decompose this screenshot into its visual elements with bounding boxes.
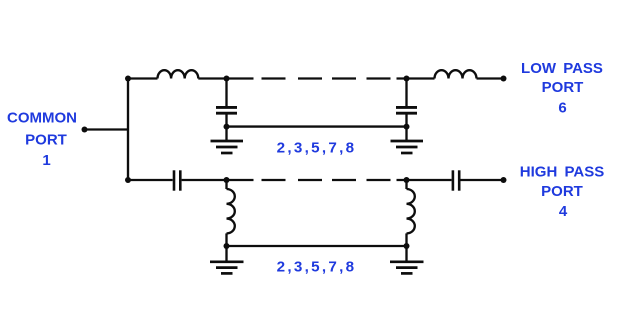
svg-text:PORT: PORT [25, 131, 67, 148]
wire top bus 2,3,5,7,8 [227, 125, 407, 127]
node A top-left shunt junction [224, 76, 230, 82]
svg-text:6: 6 [558, 99, 566, 116]
wire node D down to L4 [405, 180, 407, 189]
capacitor C2 shunt [396, 107, 417, 113]
wire top branch left [128, 77, 158, 79]
wire L4 to ground stem [405, 233, 407, 260]
wire C1 to ground stem [225, 115, 227, 141]
wire node B to L2 [407, 77, 435, 79]
node top split junction [125, 76, 131, 82]
inductor L1 series low-pass [158, 70, 199, 78]
wire vertical splitter bar [127, 79, 129, 181]
svg-text:HIGH PASS: HIGH PASS [520, 163, 604, 180]
wire dashed bottom omitted sections [227, 179, 407, 181]
node bottom bus left junction [224, 243, 230, 249]
wire bottom bus 2,3,5,7,8 [227, 245, 407, 247]
wire common port to split [85, 128, 129, 130]
capacitor C4 series high-pass [453, 170, 459, 190]
capacitor C3 series high-pass [174, 170, 180, 190]
node bottom bus right junction [404, 243, 410, 249]
node top bus left junction [224, 124, 230, 130]
svg-text:PORT: PORT [541, 183, 583, 200]
svg-text:2,3,5,7,8: 2,3,5,7,8 [277, 258, 357, 275]
node bottom split junction [125, 177, 131, 183]
inductor L4 shunt [407, 189, 415, 233]
wire L1 to node A [198, 77, 226, 79]
wire dashed top omitted sections [227, 77, 407, 79]
node C bottom-left shunt junction [224, 177, 230, 183]
wire node B down to C2 [405, 79, 407, 107]
capacitor C1 shunt [216, 107, 237, 113]
svg-text:LOW PASS: LOW PASS [521, 60, 603, 77]
node B top-right shunt junction [404, 76, 410, 82]
node COMMON PORT 1 terminal [82, 127, 88, 133]
node LOW PASS PORT 6 terminal [501, 76, 507, 82]
wire C3 to node C [182, 179, 227, 181]
node D bottom-right shunt junction [404, 177, 410, 183]
svg-text:COMMON: COMMON [7, 110, 77, 127]
wire L2 to low pass port [477, 77, 504, 79]
wire bottom branch left [128, 179, 173, 181]
svg-text:4: 4 [559, 203, 568, 220]
ground bottom-right [390, 262, 424, 274]
wire node D to C4 [407, 179, 452, 181]
inductor L3 shunt [227, 189, 235, 233]
wire node A down to C1 [225, 79, 227, 107]
wire L3 to ground stem [225, 233, 227, 260]
node HIGH PASS PORT 4 terminal [501, 177, 507, 183]
wire node C down to L3 [225, 180, 227, 189]
wire C4 to high pass port [461, 179, 504, 181]
ground top-right [391, 141, 424, 153]
ground bottom-left [210, 262, 244, 274]
node top bus right junction [404, 124, 410, 130]
ground top-left [211, 141, 244, 153]
wire C2 to ground stem [405, 115, 407, 141]
svg-text:2,3,5,7,8: 2,3,5,7,8 [277, 139, 357, 156]
svg-text:PORT: PORT [542, 79, 584, 96]
inductor L2 series low-pass [435, 70, 477, 78]
svg-text:1: 1 [42, 152, 50, 169]
